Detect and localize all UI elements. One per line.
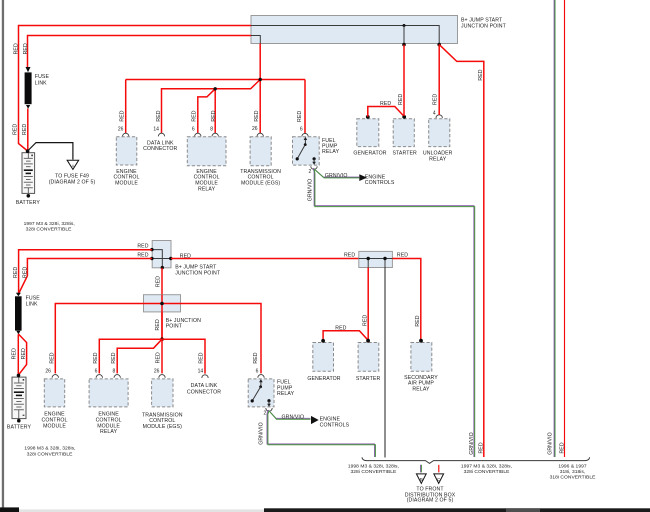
svg-text:RED: RED xyxy=(253,352,259,363)
window chrome: bottom bar thumb xyxy=(506,508,540,512)
data link connector (1997) xyxy=(143,110,177,152)
brace label 1997 xyxy=(461,464,512,475)
svg-text:STARTER: STARTER xyxy=(392,151,417,157)
window chrome: bottom dark bar xyxy=(264,508,650,512)
wire GRN/VIO fuel pump relay output (1998) xyxy=(268,410,310,418)
svg-text:14: 14 xyxy=(153,127,159,133)
node dots on box (1998) xyxy=(150,248,153,251)
svg-text:(DIAGRAM 2 OF 5): (DIAGRAM 2 OF 5) xyxy=(49,179,96,185)
fuse link F2 xyxy=(15,293,40,335)
brace label 1998 xyxy=(348,464,399,475)
svg-text:4: 4 xyxy=(433,111,436,117)
svg-text:RELAY: RELAY xyxy=(100,429,118,435)
svg-text:8: 8 xyxy=(113,368,116,374)
connector C xyxy=(434,474,444,484)
svg-text:1997 M3 & 328i, 328is,: 1997 M3 & 328i, 328is, xyxy=(461,464,512,470)
svg-text:RED: RED xyxy=(111,352,117,363)
svg-text:2: 2 xyxy=(309,169,312,175)
node dot starter feed xyxy=(402,43,406,47)
svg-text:DATA LINK: DATA LINK xyxy=(191,383,218,389)
svg-text:B: B xyxy=(420,477,423,482)
svg-text:POINT: POINT xyxy=(166,324,183,330)
junction dot branch xyxy=(214,87,217,90)
wire GRN/VIO long right (318i) xyxy=(553,0,555,457)
arrow to engine controls (1997) xyxy=(359,174,367,181)
starter (1998) xyxy=(356,339,381,382)
label to front distribution box xyxy=(405,487,456,504)
svg-text:BATTERY: BATTERY xyxy=(7,425,32,431)
svg-text:RED: RED xyxy=(156,276,162,287)
svg-text:26: 26 xyxy=(118,127,124,133)
svg-text:LINK: LINK xyxy=(35,80,47,86)
section label 1998 xyxy=(24,446,75,458)
svg-text:CONNECTOR: CONNECTOR xyxy=(187,390,221,396)
window chrome: bottom-left black block xyxy=(0,507,19,512)
svg-text:RED: RED xyxy=(50,352,56,363)
svg-text:RED: RED xyxy=(23,43,29,54)
svg-text:RED: RED xyxy=(478,69,484,80)
wire black to fuse F49 xyxy=(28,143,73,160)
svg-text:RED: RED xyxy=(137,252,148,258)
junction dot inside box xyxy=(403,24,406,27)
svg-text:RELAY: RELAY xyxy=(322,149,340,155)
svg-text:328i CONVERTIBLE: 328i CONVERTIBLE xyxy=(27,451,74,457)
svg-text:26: 26 xyxy=(252,126,258,132)
wire RED TCM drop (1998) xyxy=(161,339,163,373)
svg-text:328i CONVERTIBLE: 328i CONVERTIBLE xyxy=(26,227,73,233)
svg-text:RELAY: RELAY xyxy=(412,387,430,393)
svg-text:RED: RED xyxy=(478,442,484,453)
brace label 318i xyxy=(550,464,597,481)
transmission control module EGS (1997) xyxy=(240,126,281,186)
wire RED data link branch (1998) xyxy=(162,339,205,373)
svg-text:RED: RED xyxy=(254,110,260,121)
svg-text:MODULE (EGS): MODULE (EGS) xyxy=(143,424,182,430)
B+ jump start junction point box (1998) xyxy=(152,241,221,277)
wire RED generator branch (1998) xyxy=(323,331,368,341)
engine control module (1997) xyxy=(113,110,139,186)
fuel pump relay (1997) xyxy=(293,111,340,176)
svg-text:GRN/VIO: GRN/VIO xyxy=(469,432,475,455)
svg-text:6: 6 xyxy=(256,368,259,374)
svg-text:318i, 318is,: 318i, 318is, xyxy=(560,469,586,475)
arrow to engine controls (1998) xyxy=(311,416,319,424)
svg-text:RED: RED xyxy=(137,244,148,250)
svg-text:RED: RED xyxy=(23,267,29,278)
svg-text:JUNCTION POINT: JUNCTION POINT xyxy=(461,23,507,29)
wire RED battery feed 2 (with fuse link) upper xyxy=(28,36,252,68)
svg-text:RELAY: RELAY xyxy=(277,391,295,397)
svg-text:26: 26 xyxy=(45,368,51,374)
svg-text:GRN/VIO: GRN/VIO xyxy=(548,432,554,455)
wire GRN/VIO stub to connector B xyxy=(420,465,422,473)
svg-text:26: 26 xyxy=(154,368,160,374)
svg-text:GENERATOR: GENERATOR xyxy=(353,151,386,157)
wire RED horizontal through junction box xyxy=(55,304,261,374)
svg-text:(DIAGRAM 2 OF 5): (DIAGRAM 2 OF 5) xyxy=(407,498,454,504)
wire RED main bus (1997) xyxy=(126,44,305,134)
svg-text:RELAY: RELAY xyxy=(429,156,447,162)
connector B xyxy=(416,474,426,484)
svg-text:RED: RED xyxy=(199,352,205,363)
svg-text:RED: RED xyxy=(155,352,161,363)
wire RED battery feed 1 (1998) xyxy=(19,250,152,293)
secondary air pump relay (1998) xyxy=(404,339,438,393)
B+ junction point box (1998) xyxy=(144,295,202,330)
svg-text:GRN/VIO: GRN/VIO xyxy=(281,415,304,421)
svg-text:RED: RED xyxy=(191,110,197,121)
svg-text:RED: RED xyxy=(180,253,191,259)
connector A to fuse F49 xyxy=(49,160,96,185)
svg-text:RED: RED xyxy=(93,352,99,363)
fuel pump relay (1998) xyxy=(248,352,294,416)
starter (1997) xyxy=(392,115,417,157)
wire RED battery feed 1 (top) xyxy=(19,26,252,152)
svg-text:RED: RED xyxy=(297,111,303,122)
svg-text:328i CONVERTIBLE: 328i CONVERTIBLE xyxy=(350,469,397,475)
svg-text:STARTER: STARTER xyxy=(356,376,381,382)
bus bar B inside B+ box (1997) xyxy=(251,36,260,44)
svg-text:JUNCTION POINT: JUNCTION POINT xyxy=(175,270,221,276)
svg-text:MODULE: MODULE xyxy=(43,423,66,429)
wire RED starter drop (1998) xyxy=(367,268,369,340)
engine control module relay (1998) xyxy=(89,352,128,435)
wire RED relay pin6 branch (1998) xyxy=(99,339,162,373)
svg-text:GRN/VIO: GRN/VIO xyxy=(259,422,265,445)
junction node below box xyxy=(160,337,164,341)
wire RED drop from box2 to B+ junction point xyxy=(161,268,163,339)
wire RED vertical through junction box xyxy=(161,295,163,340)
wire RED stub to connector C xyxy=(438,465,440,473)
wire black to front distribution xyxy=(384,268,386,458)
svg-text:1998 M3 & 328i, 328is,: 1998 M3 & 328i, 328is, xyxy=(348,464,399,470)
battery B1 xyxy=(16,149,41,206)
svg-text:RED: RED xyxy=(12,348,18,359)
svg-text:318i CONVERTIBLE: 318i CONVERTIBLE xyxy=(550,474,597,480)
svg-text:RED: RED xyxy=(363,315,369,326)
wire RED long right feed (1997/B+) xyxy=(439,45,484,457)
brace collector xyxy=(362,457,590,463)
wire RED to secondary air pump relay xyxy=(392,259,420,340)
generator (1998) xyxy=(307,339,340,382)
window chrome: bottom light scrollbar xyxy=(19,509,264,512)
svg-text:RED: RED xyxy=(380,101,391,107)
svg-text:RED: RED xyxy=(335,325,346,331)
svg-text:A: A xyxy=(71,163,74,168)
node dot unloader feed xyxy=(437,43,441,47)
bus drop to starter node xyxy=(403,26,405,45)
bus lines inside box (1998) xyxy=(152,250,171,268)
wire RED generator branch xyxy=(368,107,404,117)
unloader relay (1997) xyxy=(423,111,453,163)
svg-text:CONTROLS: CONTROLS xyxy=(365,180,395,186)
svg-text:RED: RED xyxy=(22,124,28,135)
engine control module (1998) xyxy=(41,352,67,429)
B+ jump start junction point box (1997) xyxy=(251,16,507,44)
svg-text:MODULE: MODULE xyxy=(115,181,138,187)
bus bar A inside B+ box (1997) xyxy=(251,26,439,45)
svg-text:RED: RED xyxy=(155,319,161,330)
engine control module relay (1997) xyxy=(187,110,226,192)
svg-text:LINK: LINK xyxy=(26,301,38,307)
section label 1997 xyxy=(24,221,75,233)
svg-text:GENERATOR: GENERATOR xyxy=(307,376,340,382)
svg-text:6: 6 xyxy=(192,127,195,133)
svg-text:RED: RED xyxy=(397,253,408,259)
wire RED long right (318i) xyxy=(564,0,566,457)
svg-text:RED: RED xyxy=(211,110,217,121)
svg-text:FUSE: FUSE xyxy=(35,74,50,80)
svg-text:328i CONVERTIBLE: 328i CONVERTIBLE xyxy=(464,469,511,475)
svg-text:ENGINE: ENGINE xyxy=(320,416,341,422)
svg-text:RED: RED xyxy=(13,43,19,54)
wire RED battery feed 2 lower xyxy=(27,109,29,152)
wire RED relay pin8 branch (1998) xyxy=(117,339,162,373)
svg-text:6: 6 xyxy=(95,368,98,374)
node dots box3 xyxy=(367,257,370,260)
junction box3 (1998 right) xyxy=(359,251,393,267)
svg-text:RED: RED xyxy=(13,267,19,278)
svg-text:2: 2 xyxy=(264,410,267,416)
svg-text:RED: RED xyxy=(12,124,18,135)
junction dot in box xyxy=(160,302,164,306)
transmission control module EGS (1998) xyxy=(142,352,183,430)
svg-text:1996 & 1997: 1996 & 1997 xyxy=(558,464,587,470)
svg-text:6: 6 xyxy=(300,127,303,133)
svg-text:GRN/VIO: GRN/VIO xyxy=(307,179,313,202)
bus inside box3 xyxy=(359,259,393,268)
wire RED long feed to junction box3 xyxy=(171,258,359,260)
svg-text:RELAY: RELAY xyxy=(198,186,216,192)
wire GRN/VIO fuel pump relay output (1997) xyxy=(313,168,359,177)
svg-text:RED: RED xyxy=(156,110,162,121)
svg-text:RED: RED xyxy=(344,253,355,259)
svg-text:CONTROLS: CONTROLS xyxy=(320,423,350,429)
data link connector (1998) xyxy=(187,352,221,395)
svg-text:1998 M3 & 328i, 328is,: 1998 M3 & 328i, 328is, xyxy=(24,446,75,452)
wire RED starter feed xyxy=(403,45,405,116)
wire RED below fuse (1998) xyxy=(18,334,26,375)
svg-text:RED: RED xyxy=(398,94,404,105)
wire RED battery feed 2 (1998) xyxy=(19,259,152,294)
window chrome: left divider xyxy=(2,0,4,508)
svg-text:RED: RED xyxy=(21,348,27,359)
svg-text:RED: RED xyxy=(120,110,126,121)
svg-text:RED: RED xyxy=(560,442,566,453)
generator (1997) xyxy=(353,115,386,157)
svg-text:8: 8 xyxy=(210,127,213,133)
junction dot bus xyxy=(259,78,262,81)
svg-text:RED: RED xyxy=(415,315,421,326)
fuse link F1 xyxy=(25,67,50,109)
wire RED unloader feed xyxy=(438,45,440,115)
svg-text:1997 M3 & 328i, 328is,: 1997 M3 & 328i, 328is, xyxy=(24,221,75,227)
svg-text:MODULE (EGS): MODULE (EGS) xyxy=(241,181,280,187)
svg-text:CONNECTOR: CONNECTOR xyxy=(143,146,177,152)
svg-text:RED: RED xyxy=(433,94,439,105)
svg-text:BATTERY: BATTERY xyxy=(16,200,41,206)
svg-text:GRN/VIO: GRN/VIO xyxy=(325,173,348,179)
battery B2 xyxy=(7,374,32,431)
svg-text:14: 14 xyxy=(198,368,204,374)
